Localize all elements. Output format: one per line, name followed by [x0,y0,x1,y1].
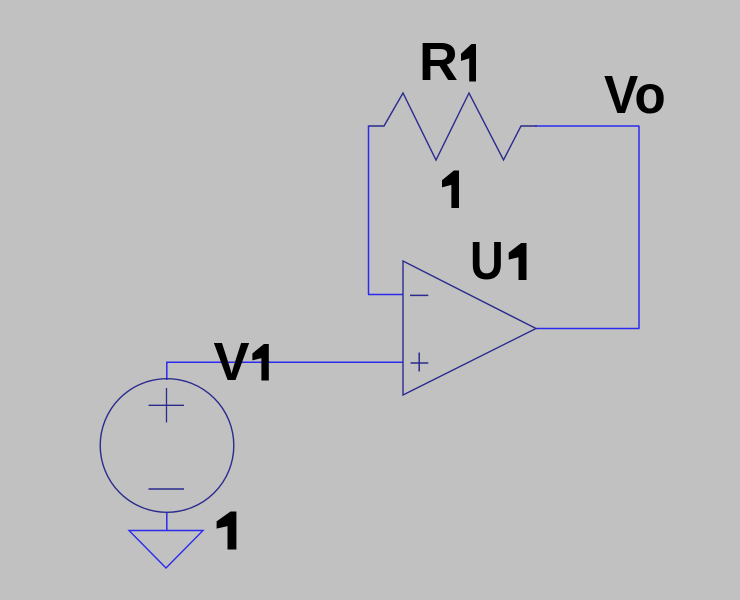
wire: feedback left vertical [368,126,370,295]
digit 1 of label R1 [461,44,476,82]
digit 1 of label V1 [252,344,268,381]
wire: right vertical Vo net [638,126,640,329]
wire: top net to Vo corner [535,125,639,127]
op-amp U1 [403,261,536,395]
label U1 [470,234,504,288]
wire: op-amp output horizontal [536,328,640,330]
label R1 [419,35,458,89]
label V1 [214,335,250,389]
wire: inverting input horizontal [368,294,403,296]
value 1 of source V1 [217,512,237,550]
wire: V1 bottom stub [166,512,168,530]
node Vo [604,68,666,122]
wire: non-inverting input horizontal from V1 [167,361,403,363]
resistor R1 [369,93,538,160]
digit 1 of label U1 [509,243,527,280]
value 1 of resistor R1 [442,171,459,209]
voltage source V1 [100,379,234,513]
wire: V1 top stub [166,362,168,381]
ground [129,531,203,569]
